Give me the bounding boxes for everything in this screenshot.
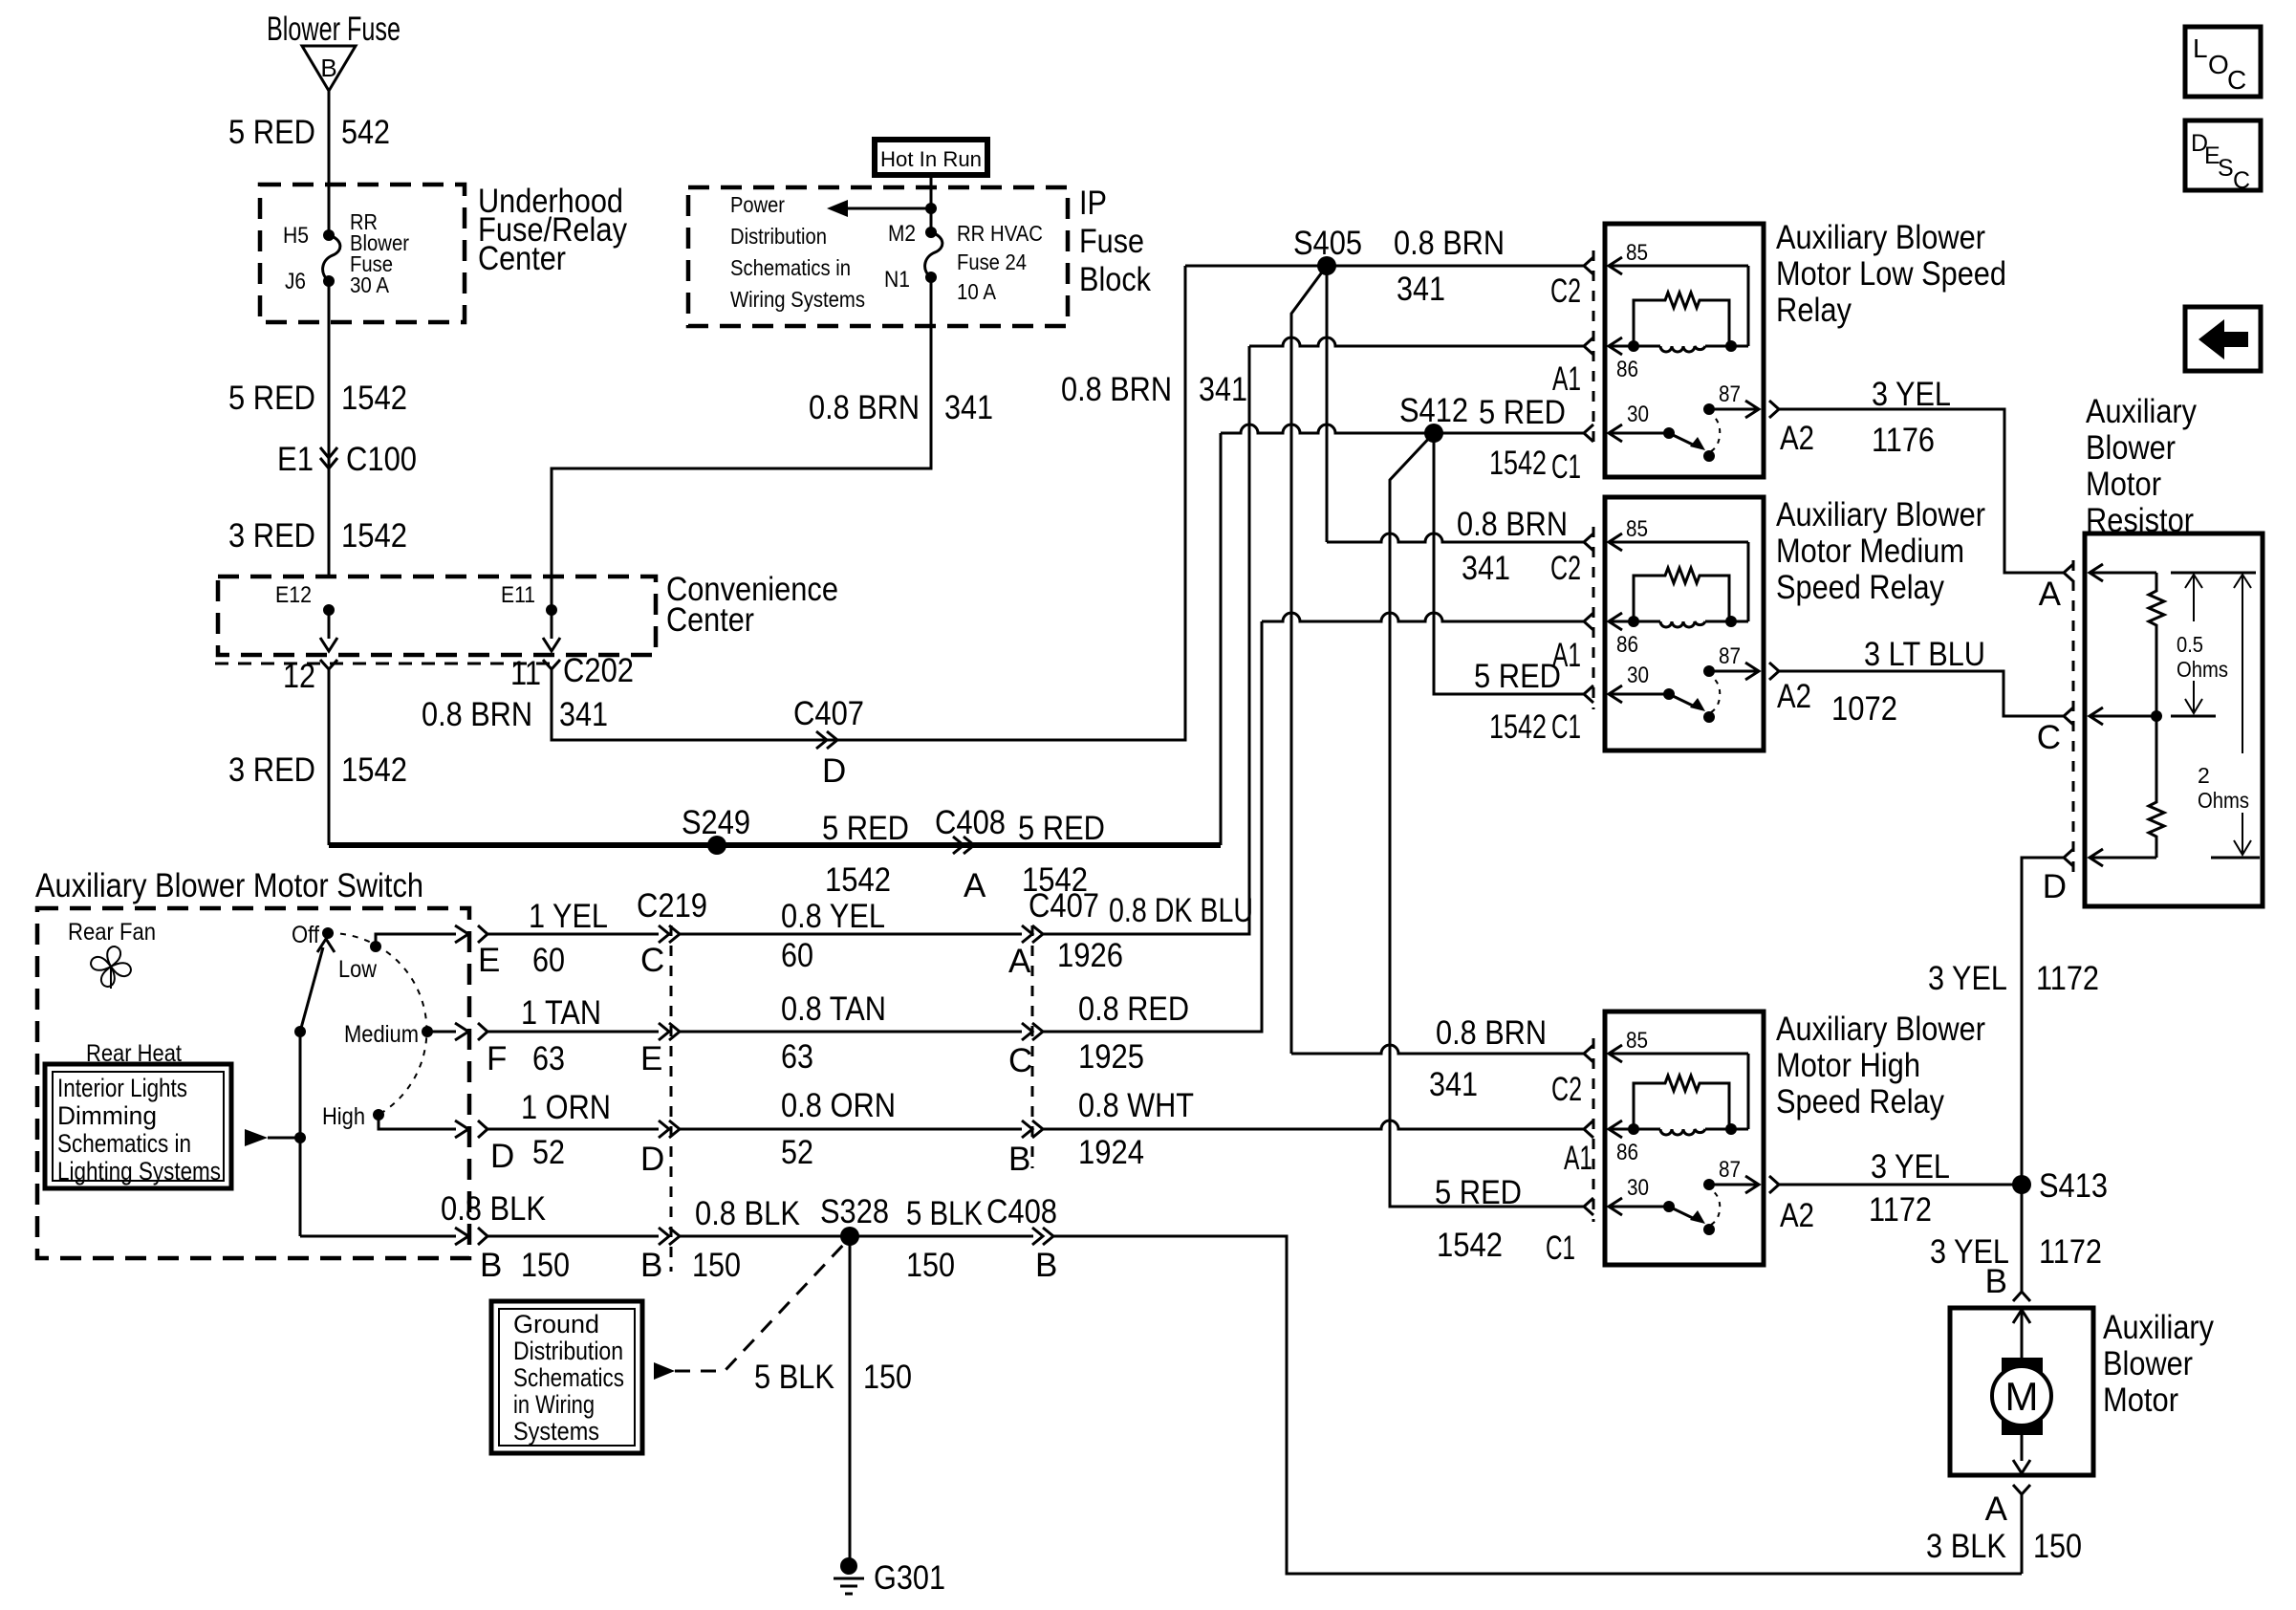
label 0.8 BRN 341 (low relay C2) [1394, 225, 1505, 308]
svg-text:52: 52 [532, 1134, 565, 1171]
resistor C arrow [2090, 707, 2156, 725]
svg-text:A2: A2 [1777, 678, 1811, 715]
svg-text:B: B [640, 1247, 662, 1284]
svg-text:C2: C2 [1550, 550, 1581, 587]
svg-text:Rear Fan: Rear Fan [68, 919, 156, 946]
splice S413 [2012, 1167, 2108, 1205]
switch arm to Off [300, 939, 335, 1032]
IP fuse block box [688, 187, 1068, 326]
svg-text:E: E [478, 942, 500, 979]
svg-text:Speed Relay: Speed Relay [1776, 1083, 1944, 1120]
svg-text:Systems: Systems [513, 1417, 599, 1446]
blower fuse symbol B [267, 11, 401, 91]
svg-text:D: D [640, 1141, 664, 1178]
label 0.8 YEL 60 [781, 898, 885, 974]
svg-text:1925: 1925 [1078, 1038, 1144, 1076]
svg-text:5 RED: 5 RED [1018, 810, 1105, 847]
svg-text:Off: Off [292, 922, 319, 948]
E12 wire arrow in box [320, 610, 337, 651]
svg-text:Schematics: Schematics [513, 1363, 624, 1392]
switch contact Medium [344, 1021, 433, 1048]
label 5 RED 542 [228, 114, 390, 151]
label 3 BLK 150 [1926, 1528, 2082, 1565]
auxiliary blower motor resistor box [2085, 533, 2263, 906]
label RR Blower Fuse 30 A [350, 209, 409, 297]
wire 0.8 BLK to S328 [680, 1235, 1033, 1238]
label 0.8 TAN 63 [781, 990, 886, 1076]
label Convenience Center [666, 571, 838, 639]
svg-text:30: 30 [1627, 1175, 1649, 1201]
connector C219 pin D [640, 1120, 680, 1178]
svg-text:C202: C202 [563, 652, 634, 689]
splice S328 [820, 1193, 889, 1246]
wire 5 BLK to motor ground run [1052, 1236, 2022, 1574]
svg-text:O: O [2208, 50, 2229, 79]
svg-text:Schematics in: Schematics in [57, 1129, 191, 1158]
label 3 LT BLU 1072 [1831, 636, 1985, 728]
svg-text:J6: J6 [285, 269, 306, 294]
ground distribution box [491, 1301, 642, 1453]
pin C2 low relay [1550, 272, 1581, 310]
svg-text:C407: C407 [793, 695, 864, 732]
aux blower motor switch box [37, 908, 469, 1258]
motor symbol M [1992, 1358, 2051, 1435]
svg-text:Auxiliary: Auxiliary [2103, 1309, 2214, 1346]
svg-text:150: 150 [906, 1247, 955, 1284]
svg-text:Block: Block [1079, 261, 1151, 298]
label 0.8 RED 1925 [1078, 990, 1189, 1076]
connector pin D [478, 1120, 565, 1175]
connector C408 pin B [986, 1193, 1057, 1284]
label 0.8 ORN 52 [781, 1087, 896, 1171]
label Rear Heat [86, 1040, 182, 1067]
label 0.8 BRN 341 (fuse24 out) [809, 389, 993, 426]
svg-text:Blower: Blower [2103, 1345, 2193, 1382]
svg-text:C407: C407 [1029, 887, 1099, 925]
svg-text:5 BLK: 5 BLK [754, 1359, 834, 1396]
svg-text:87: 87 [1719, 643, 1741, 669]
underhood fuse/relay center box [260, 185, 465, 322]
svg-text:0.8 BRN: 0.8 BRN [1457, 506, 1568, 543]
wire 3 RED 1542 to S249 row [328, 669, 331, 845]
pin A motor [1985, 1485, 2030, 1528]
label 5 RED 1542 [228, 380, 407, 417]
svg-text:C219: C219 [637, 887, 707, 925]
wire 5 RED 1542 [328, 281, 331, 577]
svg-text:Ohms: Ohms [2177, 657, 2228, 682]
wire from Hot In Run [930, 175, 933, 232]
svg-text:C2: C2 [1551, 1071, 1582, 1108]
wire 0.8 ORN 52 [680, 1128, 1022, 1131]
svg-text:2: 2 [2198, 763, 2210, 788]
svg-text:C408: C408 [935, 804, 1006, 841]
svg-text:1 TAN: 1 TAN [521, 994, 601, 1032]
wire high C2 row [1291, 1045, 1584, 1054]
svg-text:Hot In Run: Hot In Run [880, 147, 982, 171]
wire resistor D to S413 to motor [2022, 858, 2064, 1292]
svg-text:Auxiliary Blower: Auxiliary Blower [1776, 1011, 1985, 1048]
terminal M2 [888, 221, 937, 247]
wire N1 to E11 [552, 277, 931, 610]
wire 0.8 BLK 150 [487, 1235, 659, 1238]
pin A2 medium relay [1777, 678, 1811, 715]
label 1 TAN [521, 994, 601, 1032]
svg-text:1926: 1926 [1057, 937, 1123, 974]
svg-text:A: A [1008, 943, 1031, 980]
svg-text:86: 86 [1616, 1140, 1638, 1165]
svg-text:0.8 BRN: 0.8 BRN [1061, 371, 1172, 408]
svg-text:Ground: Ground [513, 1310, 599, 1338]
svg-text:5 RED: 5 RED [228, 380, 315, 417]
DESC reference box [2185, 120, 2261, 194]
svg-text:N1: N1 [884, 267, 910, 293]
svg-text:0.8 BLK: 0.8 BLK [695, 1195, 800, 1232]
svg-text:C1: C1 [1551, 708, 1581, 746]
splice S249 [682, 804, 750, 855]
svg-text:85: 85 [1626, 1028, 1648, 1054]
svg-text:0.8 BRN: 0.8 BRN [1394, 225, 1505, 262]
label Interior Lights Dimming Schematics in Lighting Systems [57, 1074, 221, 1186]
convenience center box [218, 577, 656, 655]
svg-text:C: C [2227, 65, 2246, 95]
svg-text:1542: 1542 [341, 380, 407, 417]
svg-text:B: B [480, 1247, 502, 1284]
svg-text:542: 542 [341, 114, 390, 151]
E11 wire arrow in box [543, 610, 560, 651]
svg-text:Fuse: Fuse [1079, 223, 1144, 260]
svg-text:Speed Relay: Speed Relay [1776, 569, 1944, 606]
svg-text:M: M [2005, 1374, 2039, 1419]
svg-text:C1: C1 [1546, 1229, 1575, 1267]
svg-text:S: S [2218, 155, 2234, 182]
relay U1 Auxiliary Blower Motor Low Speed Relay [1584, 219, 2006, 477]
svg-text:12: 12 [283, 658, 315, 695]
connector C408 pin A [935, 804, 1006, 904]
pin D resistor [2043, 849, 2073, 905]
connector C407 pin B [1008, 1120, 1043, 1178]
svg-text:63: 63 [781, 1038, 813, 1076]
connector pin E [478, 925, 565, 979]
svg-text:Center: Center [478, 240, 566, 277]
svg-text:L: L [2193, 33, 2208, 63]
svg-text:0.8 ORN: 0.8 ORN [781, 1087, 896, 1124]
svg-text:341: 341 [1462, 550, 1510, 587]
svg-text:Interior Lights: Interior Lights [57, 1074, 187, 1102]
wire 0.8 RED 1925 [1041, 621, 1262, 1032]
interior lights dimming box [45, 1064, 231, 1188]
svg-text:5 RED: 5 RED [228, 114, 315, 151]
label Underhood Fuse/Relay Center [478, 183, 627, 277]
pin A1 medium relay [1552, 637, 1581, 674]
svg-text:Medium: Medium [344, 1021, 419, 1048]
svg-text:Motor Medium: Motor Medium [1776, 533, 1964, 570]
svg-text:1172: 1172 [1869, 1191, 1932, 1229]
resistor element 2 ohm [2149, 716, 2164, 858]
svg-text:30: 30 [1627, 402, 1649, 427]
connector C100 pin E1 [277, 441, 417, 478]
svg-text:C: C [640, 942, 664, 979]
label 3 YEL 1176 [1872, 376, 1951, 459]
label 5 RED 1542 (right of C408) [1018, 810, 1105, 899]
svg-text:150: 150 [521, 1247, 570, 1284]
svg-text:Lighting Systems: Lighting Systems [57, 1157, 221, 1186]
svg-text:0.8 BRN: 0.8 BRN [422, 696, 532, 733]
svg-text:C408: C408 [986, 1193, 1057, 1230]
LOC reference box [2185, 27, 2261, 97]
svg-text:341: 341 [1199, 371, 1247, 408]
svg-text:0.8 YEL: 0.8 YEL [781, 898, 885, 935]
label 5 RED 1542 (medium C1) [1474, 658, 1561, 746]
connector C219 pin C [637, 887, 707, 1272]
svg-text:Auxiliary: Auxiliary [2086, 393, 2197, 430]
svg-text:1 YEL: 1 YEL [529, 898, 608, 935]
svg-text:3 YEL: 3 YEL [1871, 1148, 1950, 1186]
wire 3 YEL 1176 low A2 to resistor A [1779, 409, 2064, 573]
connector C407 pin C [1008, 1023, 1043, 1079]
fuse RR Blower Fuse 30A symbol [323, 235, 340, 281]
splice S405 [1293, 225, 1362, 275]
svg-text:Motor High: Motor High [1776, 1047, 1920, 1084]
svg-text:A2: A2 [1780, 420, 1814, 457]
label 3 RED 1542 lower [228, 751, 407, 789]
svg-text:B: B [1008, 1141, 1030, 1178]
motor input arrow [2013, 1310, 2030, 1361]
svg-text:Center: Center [666, 601, 754, 639]
fan symbol [91, 946, 131, 989]
connector pin B [478, 1228, 570, 1284]
svg-text:1176: 1176 [1872, 422, 1935, 459]
svg-text:Blower Fuse: Blower Fuse [267, 11, 401, 48]
svg-text:341: 341 [559, 696, 608, 733]
svg-text:0.8 RED: 0.8 RED [1078, 990, 1189, 1028]
label 5 RED 1542 (high C1) [1435, 1174, 1522, 1264]
svg-text:Schematics in: Schematics in [730, 255, 851, 280]
svg-text:150: 150 [2033, 1528, 2082, 1565]
svg-text:Distribution: Distribution [730, 224, 827, 249]
svg-text:D: D [822, 752, 846, 790]
svg-text:Auxiliary Blower: Auxiliary Blower [1776, 219, 1985, 256]
relay U3 Auxiliary Blower Motor High Speed Relay [1584, 1011, 1985, 1265]
svg-text:3 YEL: 3 YEL [1928, 960, 2007, 997]
measure tick mid [2171, 715, 2216, 718]
wire S405 diag to high C2 [1291, 266, 1327, 1054]
label Ground Distribution Schematics in Wiring Systems [513, 1310, 624, 1446]
svg-text:D: D [490, 1138, 514, 1175]
switch contact Low [338, 941, 381, 983]
label 3 YEL 1172 (A2) [1869, 1148, 1950, 1229]
svg-text:Relay: Relay [1776, 292, 1852, 329]
label G301 [874, 1559, 945, 1597]
label 3 RED 1542 upper [228, 517, 407, 555]
connector C202 pin 12 [283, 658, 337, 695]
pin C1 medium relay [1551, 708, 1581, 746]
svg-text:0.8 BRN: 0.8 BRN [1436, 1014, 1547, 1052]
label 1 ORN [521, 1089, 611, 1126]
svg-text:C1: C1 [1551, 448, 1581, 486]
svg-text:S405: S405 [1293, 225, 1362, 262]
connector C407 pin A [1008, 887, 1099, 1168]
svg-text:85: 85 [1626, 516, 1648, 542]
svg-text:86: 86 [1616, 357, 1638, 382]
svg-text:0.8 BRN: 0.8 BRN [809, 389, 920, 426]
wire S412 row 5 RED [1221, 424, 1584, 433]
switch contact High [322, 1103, 384, 1130]
wire S405 to medium C2 vertical [1326, 266, 1329, 542]
wire Medium to F pin [427, 1023, 468, 1040]
svg-text:S413: S413 [2039, 1167, 2108, 1205]
pin A2 high relay [1780, 1197, 1814, 1234]
junction dot resistor mid [2151, 710, 2162, 722]
svg-text:A1: A1 [1552, 360, 1581, 398]
wire 0.8 TAN 63 [680, 1031, 1022, 1033]
label Power Distribution Schematics in Wiring Systems [730, 192, 865, 312]
arrow to power distribution [827, 200, 931, 217]
svg-text:0.5: 0.5 [2177, 632, 2203, 657]
terminal H5 [283, 223, 335, 249]
label 5 BLK 150 (ground) [754, 1359, 912, 1396]
label 5 BLK 150 [906, 1195, 983, 1284]
svg-text:10 A: 10 A [957, 279, 997, 304]
svg-text:C: C [1008, 1042, 1032, 1079]
wire 0.8 YEL 60 [680, 933, 1022, 936]
svg-text:A1: A1 [1564, 1140, 1592, 1177]
svg-text:H5: H5 [283, 223, 309, 249]
svg-text:A1: A1 [1552, 637, 1581, 674]
svg-text:C: C [2233, 167, 2250, 194]
resistor D arrow [2090, 849, 2156, 866]
resistor element 0.5 ohm [2149, 573, 2164, 716]
svg-text:85: 85 [1626, 240, 1648, 266]
svg-text:3 BLK: 3 BLK [1926, 1528, 2006, 1565]
svg-text:87: 87 [1719, 381, 1741, 407]
measure tick bottom [2211, 857, 2260, 859]
svg-text:1542: 1542 [341, 517, 407, 555]
svg-text:Motor: Motor [2103, 1382, 2178, 1419]
svg-text:Wiring Systems: Wiring Systems [730, 287, 865, 312]
svg-text:341: 341 [1397, 271, 1445, 308]
svg-text:S328: S328 [820, 1193, 889, 1230]
svg-text:A: A [964, 867, 986, 904]
label 0.8 BRN 341 (to S405) [1061, 371, 1247, 408]
wire S412 diag to high C1 [1390, 433, 1584, 1207]
svg-text:3 YEL: 3 YEL [1872, 376, 1951, 413]
connector C202 dashed line [215, 663, 552, 665]
pin C2 medium relay [1550, 550, 1581, 587]
svg-text:A: A [2039, 576, 2062, 613]
connector C219 pin B [640, 1228, 680, 1284]
pin C1 high relay [1546, 1229, 1575, 1267]
svg-text:1542: 1542 [341, 751, 407, 789]
splice S412 [1399, 392, 1468, 443]
svg-text:5 RED: 5 RED [822, 810, 909, 847]
connector C407 pin D [793, 695, 864, 790]
svg-text:1924: 1924 [1078, 1134, 1144, 1171]
auxiliary blower motor box [1950, 1308, 2093, 1475]
svg-text:Motor: Motor [2086, 466, 2161, 503]
label 0.8 BRN 341 (high C2) [1429, 1014, 1547, 1103]
svg-text:E1: E1 [277, 441, 314, 478]
label 0.8 BLK (switch) [441, 1190, 546, 1228]
svg-text:Auxiliary Blower: Auxiliary Blower [1776, 496, 1985, 533]
svg-text:Motor Low Speed: Motor Low Speed [1776, 255, 2006, 293]
Hot In Run box [875, 140, 987, 175]
svg-text:C: C [2037, 719, 2061, 756]
svg-text:0.8 TAN: 0.8 TAN [781, 990, 886, 1028]
ground G301 symbol [834, 1557, 864, 1594]
pin C1 low relay [1551, 448, 1581, 486]
svg-text:1172: 1172 [2036, 960, 2099, 997]
motor output arrow [2013, 1425, 2030, 1473]
wire High to D pin [379, 1115, 468, 1138]
svg-text:5 BLK: 5 BLK [906, 1195, 983, 1232]
wire 0.8 DK BLU 1926 [1041, 346, 1249, 934]
svg-text:S249: S249 [682, 804, 750, 841]
pin C resistor [2037, 707, 2073, 756]
resistor A arrow [2090, 564, 2156, 581]
svg-text:150: 150 [863, 1359, 912, 1396]
wire 5 RED 542 vertical [328, 91, 331, 235]
wire 1 ORN 52 [487, 1128, 659, 1131]
svg-text:341: 341 [944, 389, 993, 426]
svg-text:1072: 1072 [1831, 690, 1897, 728]
svg-text:IP: IP [1079, 185, 1107, 222]
svg-text:3 RED: 3 RED [228, 751, 315, 789]
svg-text:Power: Power [730, 192, 785, 217]
resistor connector dashed line [2072, 560, 2075, 872]
label 3 YEL 1172 (upper) [1928, 960, 2099, 997]
switch pole wire [294, 1026, 306, 1236]
pin A2 low relay [1780, 420, 1814, 457]
connector pin F [478, 1023, 565, 1077]
label Auxiliary Blower Motor [2103, 1309, 2214, 1419]
label Auxiliary Blower Motor Switch [35, 867, 423, 904]
svg-text:1172: 1172 [2039, 1233, 2102, 1271]
svg-text:1542: 1542 [825, 861, 891, 899]
svg-text:E11: E11 [501, 582, 535, 608]
svg-text:1542: 1542 [1489, 445, 1547, 482]
svg-text:B: B [1035, 1247, 1057, 1284]
svg-text:E: E [640, 1040, 662, 1077]
svg-text:52: 52 [781, 1134, 813, 1171]
terminal E11 [501, 582, 557, 616]
wire medium A1 row [1262, 613, 1584, 621]
svg-text:A2: A2 [1780, 1197, 1814, 1234]
wire motor A down [2021, 1494, 2024, 1574]
pin A resistor [2039, 564, 2073, 613]
terminal N1 [884, 267, 937, 293]
label IP Fuse Block [1079, 185, 1151, 298]
label 0.8 BLK 150 [692, 1195, 800, 1284]
svg-text:86: 86 [1616, 632, 1638, 658]
pin A1 high relay [1564, 1140, 1592, 1177]
label 0.8 WHT 1924 [1078, 1087, 1194, 1171]
svg-text:G301: G301 [874, 1559, 945, 1597]
wire S412 to medium C1 [1434, 433, 1584, 694]
wire 1 TAN 63 [487, 1031, 659, 1033]
connector C202 pin 11 [510, 652, 634, 692]
wire 3 LT BLU 1072 medium A2 to resistor C [1779, 671, 2064, 716]
svg-text:63: 63 [532, 1040, 565, 1077]
wire pole to B pin [300, 1228, 468, 1245]
terminal E12 [275, 582, 335, 616]
wire 0.8 WHT 1924 to high relay A1 [1041, 1120, 1584, 1129]
svg-text:C2: C2 [1550, 272, 1581, 310]
svg-text:D: D [2043, 868, 2067, 905]
svg-text:150: 150 [692, 1247, 741, 1284]
switch contact Off [292, 922, 334, 948]
svg-text:5 RED: 5 RED [1479, 394, 1566, 431]
svg-text:11: 11 [510, 655, 541, 692]
